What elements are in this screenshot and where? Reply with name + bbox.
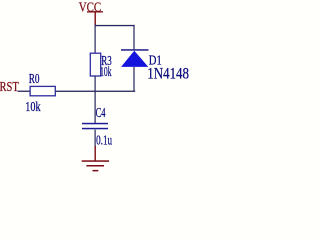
wire from VCC junction to R3 (vertical) xyxy=(95,25,96,54)
capacitor C4 xyxy=(82,106,112,148)
ground xyxy=(82,146,109,171)
svg-text:R0: R0 xyxy=(29,72,40,87)
wire D1 anode down to bottom rail xyxy=(133,67,134,92)
svg-text:0.1u: 0.1u xyxy=(96,133,112,148)
svg-text:C4: C4 xyxy=(96,106,106,121)
wire RST to R0 xyxy=(18,91,31,92)
wire top-right corner down to D1 cathode xyxy=(133,25,134,49)
diode D1 xyxy=(121,49,189,82)
svg-text:1N4148: 1N4148 xyxy=(147,65,189,82)
wire from VCC junction to D1 (horizontal top) xyxy=(95,25,135,26)
resistor R3 xyxy=(90,53,111,80)
svg-text:10k: 10k xyxy=(25,100,40,115)
resistor R0 xyxy=(25,72,55,115)
svg-text:10k: 10k xyxy=(100,65,111,80)
wire R0 to bottom-right corner (horizontal rail) xyxy=(56,91,135,92)
power symbol VCC xyxy=(79,0,103,25)
svg-text:VCC: VCC xyxy=(79,0,102,15)
svg-text:RST: RST xyxy=(0,80,19,95)
wire C4 bottom to ground xyxy=(95,130,96,148)
wire R3 bottom through junction down to C4 xyxy=(95,76,96,123)
